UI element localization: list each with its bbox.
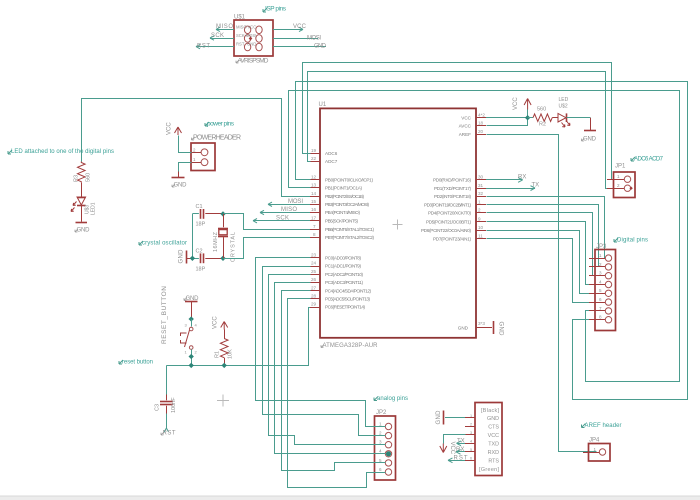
wire crystal bottom to MCU XTAL2 (PB7 pin8) (224, 238, 311, 259)
svg-text:LED1: LED1 (91, 202, 97, 215)
svg-text:30: 30 (478, 175, 484, 180)
wire ADC7 loop to JP1 pin2 (308, 72, 624, 189)
svg-text:25: 25 (311, 269, 317, 274)
svg-text:[Green]: [Green] (479, 467, 500, 473)
svg-text:PB4(PCINT4/MISO): PB4(PCINT4/MISO) (325, 210, 360, 215)
wire PC2 to JP2 pin3 (269, 275, 386, 445)
svg-text:PB1(PCINT1/OC1A): PB1(PCINT1/OC1A) (325, 186, 362, 191)
connector JP1 box (607, 164, 635, 198)
svg-text:14: 14 (311, 191, 317, 196)
wire FTDI GND pin to ground (445, 417, 465, 419)
switch S1 (reset button) (181, 319, 198, 365)
svg-text:GND: GND (583, 137, 597, 143)
ground symbol (crystal) (179, 249, 193, 264)
svg-text:AVRISPSMD: AVRISPSMD (238, 58, 269, 65)
connector JP2 box (369, 410, 396, 480)
svg-text:PB7(PCINT7/XTAL2/TOSC2): PB7(PCINT7/XTAL2/TOSC2) (325, 235, 374, 240)
label: Digital pins (614, 238, 648, 244)
wire SCK to ISP (net stub left row2) (210, 33, 234, 40)
svg-text:7: 7 (599, 306, 602, 311)
svg-text:MISO: MISO (281, 207, 297, 213)
wire FTDI VCC pin to supply flag (444, 435, 466, 444)
svg-text:CRYSTAL: CRYSTAL (231, 232, 237, 262)
svg-text:PB5(SCK/PCINT5): PB5(SCK/PCINT5) (325, 218, 358, 223)
wire C3 to RST flag (166, 414, 168, 429)
wire FTDI RXD net stub RX (456, 447, 465, 454)
svg-text:17: 17 (311, 215, 317, 220)
wire PC1 to JP2 pin2 (263, 267, 386, 436)
svg-text:VCC: VCC (247, 24, 256, 29)
wire PD5 to JP3 pin4 (487, 222, 606, 285)
svg-text:R3: R3 (74, 175, 80, 182)
wire reset net horizontal to MCU PC6 (167, 308, 311, 366)
wire AREF to JP4 (487, 135, 597, 452)
svg-text:LED attached to one of the dig: LED attached to one of the digital pins (11, 149, 114, 155)
svg-text:560: 560 (537, 107, 546, 113)
svg-text:2: 2 (599, 262, 602, 267)
svg-text:VCC: VCC (449, 442, 455, 455)
svg-text:RESET_BUTTON: RESET_BUTTON (161, 286, 168, 344)
svg-text:26: 26 (311, 277, 317, 282)
wire RX net stub (PD0) (486, 174, 526, 182)
resistor R2 560 (528, 107, 558, 128)
svg-text:RST: RST (236, 42, 245, 47)
svg-text:PC4(ADC4/SDA/PCINT12): PC4(ADC4/SDA/PCINT12) (325, 288, 371, 293)
origin cross (reset area) (217, 395, 229, 407)
svg-text:1: 1 (478, 199, 481, 204)
svg-text:1: 1 (379, 421, 382, 426)
VCC supply symbol (R1) (213, 316, 228, 330)
LED LED2 (558, 97, 570, 127)
svg-text:JP2: JP2 (376, 410, 387, 416)
svg-text:1: 1 (599, 253, 602, 258)
svg-text:SCK: SCK (211, 33, 224, 39)
svg-text:MOSI: MOSI (307, 36, 321, 42)
svg-text:R2: R2 (539, 122, 546, 128)
svg-text:C3: C3 (155, 404, 161, 411)
svg-text:18P: 18P (196, 267, 206, 273)
svg-text:ADC6: ADC6 (325, 151, 338, 156)
svg-text:PC2(ADC2/PCINT10): PC2(ADC2/PCINT10) (325, 272, 363, 277)
wire VCC to POWERHEADER pin2 (179, 136, 192, 153)
svg-text:7: 7 (313, 224, 316, 229)
junction node (C2 / crystal bottom) (220, 256, 225, 261)
svg-text:29: 29 (311, 302, 317, 307)
svg-text:PD2(INT0/PCINT18): PD2(INT0/PCINT18) (434, 194, 471, 199)
svg-text:AREF: AREF (459, 132, 471, 137)
svg-text:6: 6 (599, 297, 602, 302)
svg-text:12: 12 (311, 174, 317, 179)
svg-text:RX: RX (456, 447, 464, 453)
ground symbol (FTDI) (436, 410, 444, 425)
svg-text:15: 15 (311, 199, 317, 204)
wire PD7 to JP3 pin6 (487, 239, 606, 303)
ground symbol (power header) (172, 172, 188, 189)
capacitor C2 18P (192, 249, 223, 273)
junction node (switch bottom pad) (189, 354, 194, 359)
U1 left pin stubs and numbers (310, 148, 320, 308)
label: ADC6 ACD7 (631, 157, 664, 163)
wire reset net down to C3 (166, 365, 168, 394)
svg-text:analog pins: analog pins (377, 396, 408, 402)
wire RST to ISP (net stub left row3) (196, 43, 234, 49)
svg-text:32: 32 (478, 191, 484, 196)
svg-text:GND: GND (179, 249, 185, 264)
svg-text:PB2(PCINT2/SS/OC1B): PB2(PCINT2/SS/OC1B) (325, 194, 364, 199)
wire LED1 to GND (81, 206, 83, 222)
svg-text:GND: GND (314, 44, 327, 50)
wire VCC supply down to AVCC (487, 110, 528, 126)
svg-text:PC6(RESET/PCINT14): PC6(RESET/PCINT14) (325, 305, 365, 310)
svg-text:RST: RST (454, 455, 468, 461)
resistor R3 560 (74, 162, 92, 183)
svg-text:2: 2 (617, 183, 620, 188)
svg-text:RX: RX (518, 174, 526, 180)
svg-text:18P: 18P (196, 222, 206, 228)
wire VCC pin to supply (486, 117, 528, 119)
VCC supply symbol (FTDI, pointing down) (440, 442, 455, 455)
IC U1 ATMEGA328P-AUR box (319, 102, 477, 349)
svg-text:10K: 10K (228, 349, 234, 359)
wire PD4 to JP3 pin3 (487, 213, 606, 276)
svg-text:1: 1 (594, 447, 597, 452)
svg-text:MOSI: MOSI (288, 199, 303, 205)
resistor R1 10K (215, 330, 234, 366)
bottom gray strip (0, 496, 700, 500)
svg-text:PD6(PCINT22/OC0A/AIN0): PD6(PCINT22/OC0A/AIN0) (421, 228, 471, 233)
svg-text:PB0(PCINT0/CLKO/ICP1): PB0(PCINT0/CLKO/ICP1) (325, 177, 373, 182)
ground symbol (LED1) (75, 223, 90, 234)
svg-text:JP4: JP4 (589, 438, 600, 444)
svg-text:4: 4 (379, 449, 382, 454)
wire ADC6 loop to JP1 pin1 (303, 63, 624, 180)
svg-text:PC5(ADC5/SCL/PCINT13): PC5(ADC5/SCL/PCINT13) (325, 297, 370, 302)
wire LED2 to GND (567, 117, 591, 119)
crystal Q1 16MHZ (213, 214, 237, 262)
svg-text:LED: LED (559, 97, 569, 103)
capacitor C1 18P (192, 204, 223, 228)
U$1 pads right column (256, 26, 262, 51)
svg-text:RTS: RTS (488, 458, 499, 464)
svg-text:CTS: CTS (488, 424, 499, 430)
svg-text:GND: GND (174, 183, 188, 189)
svg-text:[Black]: [Black] (481, 408, 500, 414)
FTDI pin stubs and numbers (465, 414, 475, 461)
svg-text:24: 24 (311, 261, 317, 266)
svg-text:4: 4 (470, 439, 472, 443)
wire LED branch: digital pin net (R3 top up and right to PB2 vertical) (82, 99, 311, 197)
svg-text:GND: GND (487, 416, 499, 422)
svg-text:16MHZ: 16MHZ (213, 231, 219, 252)
svg-text:GND: GND (247, 42, 256, 47)
svg-text:AREF header: AREF header (585, 423, 622, 429)
svg-text:PB6(PCINT6/XTAL1/TOSC1): PB6(PCINT6/XTAL1/TOSC1) (325, 227, 374, 232)
svg-text:19: 19 (311, 148, 317, 153)
wire MISO net stub (PB4) (260, 207, 310, 215)
svg-text:100nF: 100nF (171, 397, 177, 413)
svg-text:PD4(PCINT20/XCK/T0): PD4(PCINT20/XCK/T0) (428, 211, 471, 216)
wire C1-C2 left side (192, 214, 194, 258)
label: crystal oscillator (139, 241, 187, 247)
svg-text:20: 20 (478, 129, 484, 134)
svg-text:PD1(TXD/PCINT17): PD1(TXD/PCINT17) (434, 186, 471, 191)
VCC supply symbol (power header) (167, 122, 182, 135)
junction node (VCC net) (525, 115, 530, 120)
wire FTDI TXD net stub TX (457, 438, 466, 445)
wire POWERHEADER pin1 to GND (179, 163, 192, 172)
junction node (JP2 pin4) (386, 451, 391, 456)
svg-text:3*3: 3*3 (478, 321, 485, 326)
wire PC5 to JP2 pin6 (288, 299, 386, 488)
junction node (switch / reset net) (189, 363, 194, 368)
svg-text:reset button: reset button (122, 360, 153, 366)
label: AREF header (582, 423, 622, 429)
svg-text:ADC6 ACD7: ADC6 ACD7 (634, 157, 664, 163)
wire crystal top to MCU XTAL1 (PB6 pin7) (224, 214, 311, 230)
svg-text:PC1(ADC1/PCINT9): PC1(ADC1/PCINT9) (325, 264, 361, 269)
label: LED attached to one of the digital pins (8, 149, 114, 155)
svg-text:8: 8 (313, 232, 316, 237)
svg-text:2: 2 (470, 422, 472, 426)
svg-text:GND: GND (77, 228, 91, 234)
svg-text:4: 4 (599, 279, 602, 284)
svg-text:ADC7: ADC7 (325, 159, 338, 164)
svg-text:8: 8 (599, 315, 602, 320)
svg-text:RXD: RXD (488, 450, 499, 456)
label: power pins (205, 121, 235, 128)
svg-text:SCK: SCK (276, 215, 289, 221)
svg-text:JP1: JP1 (615, 164, 626, 170)
U$1 pads left column (244, 26, 250, 51)
wire PD2 to JP3 pin1 (487, 197, 605, 259)
wire PC4 to JP2 pin5 (282, 291, 386, 471)
VCC supply symbol (U1) (513, 97, 531, 110)
wire TX net stub (PD1) (486, 183, 539, 191)
wire U1 GND pin to ground (486, 327, 492, 329)
wire PC3 to JP2 pin4 (275, 283, 386, 454)
svg-text:TXD: TXD (488, 441, 499, 447)
svg-text:SCK: SCK (236, 33, 245, 38)
junction node (switch top) (189, 316, 194, 321)
capacitor C3 100nF (155, 395, 178, 414)
svg-text:MOSI: MOSI (246, 33, 257, 38)
svg-text:RST: RST (163, 431, 176, 437)
wire SCK net stub (PB5) (253, 215, 310, 223)
svg-text:MISO: MISO (216, 24, 233, 30)
svg-text:PD5(PCINT21/OC0B/T1): PD5(PCINT21/OC0B/T1) (426, 219, 471, 224)
ground symbol (reset button) (184, 296, 199, 319)
wire R3 to LED1 (81, 183, 83, 197)
junction node (R1 / reset net) (222, 363, 227, 368)
svg-text:4*2: 4*2 (478, 112, 485, 117)
U1 inside pin names right (421, 115, 472, 330)
connector JP3 box (589, 244, 616, 331)
svg-text:31: 31 (478, 183, 484, 188)
svg-text:23: 23 (311, 253, 317, 258)
svg-text:5: 5 (599, 288, 602, 293)
svg-text:power pins: power pins (207, 121, 235, 128)
connector JP4 box (583, 438, 610, 462)
wire MISO to ISP (net stub left row1) (216, 24, 234, 31)
label: reset button (119, 360, 153, 366)
svg-text:GND: GND (458, 325, 469, 330)
ground symbol (U1 GND) (494, 321, 504, 336)
label: ISP pins (263, 6, 287, 13)
svg-text:10: 10 (478, 225, 484, 230)
svg-text:2: 2 (478, 208, 481, 213)
svg-text:R1: R1 (215, 351, 221, 358)
svg-text:3: 3 (599, 271, 602, 276)
svg-text:3: 3 (379, 440, 382, 445)
svg-text:1: 1 (617, 174, 620, 179)
svg-text:PD7(PCINT23/AIN1): PD7(PCINT23/AIN1) (433, 237, 471, 242)
wire PD6 to JP3 pin5 (487, 231, 606, 294)
ground symbol (LED2) (582, 131, 597, 143)
LED LED1 (71, 197, 97, 215)
svg-text:GND: GND (436, 410, 442, 425)
svg-text:18: 18 (478, 121, 484, 126)
svg-text:VCC: VCC (167, 122, 173, 135)
svg-text:Digital pins: Digital pins (617, 238, 648, 244)
svg-text:6: 6 (379, 467, 382, 472)
svg-text:VCC: VCC (513, 97, 519, 110)
wire PB1 inner loop to JP3 pin7 (289, 91, 680, 382)
wire PB0 outer loop to JP3 pin8 (296, 82, 688, 400)
svg-text:2: 2 (379, 431, 382, 436)
svg-text:AVCC: AVCC (459, 124, 472, 129)
wire FTDI RTS net stub RST (448, 455, 468, 462)
svg-text:1: 1 (470, 414, 472, 418)
U1 right pin stubs and numbers (476, 112, 486, 327)
svg-text:560: 560 (86, 173, 92, 182)
wire MOSI from ISP (net stub right row2) (273, 36, 321, 42)
svg-text:crystal oscillator: crystal oscillator (142, 241, 187, 247)
svg-text:ISP pins: ISP pins (265, 6, 287, 13)
junction node (C2 / GND) (190, 256, 195, 261)
svg-text:22: 22 (311, 156, 317, 161)
U$1 inside pin names (236, 24, 256, 46)
net flag RST (bottom of C3) (161, 428, 176, 437)
U1 inside pin names left (325, 151, 374, 310)
svg-text:PB3(PCINT3/OC2A/MOSI): PB3(PCINT3/OC2A/MOSI) (325, 202, 369, 207)
svg-text:TX: TX (457, 438, 465, 444)
svg-text:PC3(ADC3/PCINT11): PC3(ADC3/PCINT11) (325, 280, 363, 285)
svg-text:ATMEGA328P-AUR: ATMEGA328P-AUR (323, 343, 379, 349)
wire MOSI net stub (PB3) (268, 199, 310, 207)
svg-text:5: 5 (470, 448, 472, 452)
svg-text:POWERHEADER: POWERHEADER (193, 135, 241, 142)
svg-text:VCC: VCC (293, 24, 307, 30)
origin cross (U1 center) (393, 220, 403, 230)
svg-text:C1: C1 (196, 204, 203, 210)
svg-text:U$2: U$2 (559, 104, 568, 110)
wire PC0 to JP2 pin1 (256, 258, 386, 427)
connector JP POWERHEADER box (191, 135, 241, 171)
svg-text:C2: C2 (196, 249, 203, 255)
svg-text:28: 28 (311, 294, 317, 299)
svg-text:3: 3 (470, 431, 472, 435)
svg-text:16: 16 (311, 207, 317, 212)
svg-text:6: 6 (470, 456, 472, 460)
svg-text:VCC: VCC (213, 316, 219, 329)
svg-text:RST: RST (197, 43, 210, 49)
svg-text:U1: U1 (319, 102, 327, 108)
svg-text:MISO: MISO (236, 24, 247, 29)
svg-text:GND: GND (498, 322, 504, 337)
connector U$1 AVRISPSMD box (234, 15, 273, 65)
svg-text:27: 27 (311, 285, 317, 290)
label: analog pins (374, 396, 408, 402)
wire PD3 to JP3 pin2 (487, 205, 599, 267)
junction node (U$1 pad row2) (249, 37, 253, 41)
svg-text:TX: TX (532, 183, 540, 189)
svg-text:13: 13 (311, 183, 317, 188)
wire GND from ISP (net stub right row3) (273, 44, 327, 50)
svg-text:9: 9 (478, 216, 481, 221)
svg-text:11: 11 (478, 234, 483, 239)
wire VCC from ISP (net stub right row1) (273, 24, 307, 31)
svg-text:VCC: VCC (488, 433, 499, 439)
svg-text:VCC: VCC (461, 115, 471, 120)
svg-text:PD0(RXD/PCINT16): PD0(RXD/PCINT16) (433, 178, 471, 183)
svg-text:PC0(ADC0/PCINT8): PC0(ADC0/PCINT8) (325, 256, 361, 261)
junction node (C1 / crystal top) (220, 211, 225, 216)
connector FTDI serial header box (475, 403, 502, 476)
svg-text:PD3(PCINT19/OC2B/INT1): PD3(PCINT19/OC2B/INT1) (424, 202, 471, 207)
